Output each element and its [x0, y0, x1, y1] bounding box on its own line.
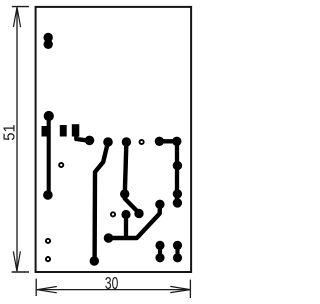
square pad S1 [42, 126, 49, 137]
wire P6 down-left to P7 [95, 142, 108, 261]
board outline [36, 7, 192, 272]
pad P9 [120, 189, 129, 198]
pad P1 top [44, 33, 53, 42]
dimension witness tick bottom-right vertical [189, 280, 191, 298]
dimension witness tick top-left [12, 6, 29, 8]
arrow down [13, 251, 20, 271]
pad P12 [104, 233, 114, 243]
horizontal dimension line 30 [37, 289, 190, 291]
arrow right [170, 286, 190, 292]
square pad S3 [72, 124, 80, 136]
hole H2 [140, 140, 144, 144]
svg-text:30: 30 [105, 273, 118, 293]
svg-text:51: 51 [2, 124, 19, 141]
wire P9 diagonal to P10 [125, 194, 139, 213]
dimension witness tick bottom-left vertical [35, 279, 37, 296]
pad P3 [44, 111, 54, 121]
arrow up [13, 7, 20, 27]
wire P3 down [47, 116, 51, 195]
hole H1 [59, 163, 63, 167]
pad P5 [85, 136, 95, 146]
pad P10 [134, 209, 143, 218]
hole H3 [111, 212, 115, 216]
pad P11 [121, 210, 130, 219]
pad P19 [155, 241, 164, 250]
hole H4 [46, 239, 50, 243]
pad P13 [155, 200, 164, 209]
wire P12 right then diagonal up to P13 [109, 205, 160, 239]
vertical dimension line 51 [16, 7, 18, 271]
pad P4 [43, 190, 53, 200]
wire P19 to P20 [158, 245, 162, 257]
pad P2 below P1 [44, 40, 53, 49]
wire S3 to pad P5 [76, 133, 88, 141]
pad P16 [173, 161, 182, 170]
pad P6 [103, 137, 113, 147]
wire P21 to P22 [175, 245, 179, 257]
hole H5 [46, 257, 50, 261]
wire P14 to P15 [159, 139, 176, 143]
pad P17 [173, 189, 182, 198]
dimension witness tick bottom-left [12, 271, 29, 273]
pad P7 [90, 256, 99, 265]
wire P15 down to P18 [175, 141, 179, 203]
square pad S2 [60, 125, 67, 137]
arrow left [37, 287, 57, 293]
pad P22 [173, 253, 182, 262]
pad P20 [155, 253, 164, 262]
wire P8 down to P9 [125, 142, 127, 194]
pad P14 [155, 137, 164, 146]
pad P18 [173, 198, 182, 207]
pad P21 [173, 241, 182, 250]
wire P11 down [124, 215, 128, 239]
pad P15 corner [172, 137, 181, 146]
pad P8 [122, 137, 131, 146]
